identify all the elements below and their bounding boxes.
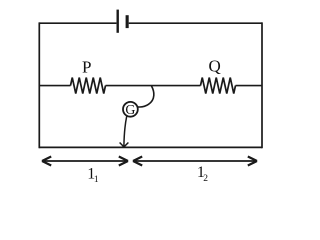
wire top-left segment [39,22,116,24]
svg-text:G: G [125,102,135,117]
dimension arrow l1 left head [42,157,51,166]
dimension arrow l2 shaft [134,160,256,162]
wire bottom (bridge wire) [39,146,262,148]
wire middle-center segment [106,85,201,87]
dimension arrow l2 right head [248,157,257,166]
wire middle-left segment [39,85,70,87]
svg-text:Q: Q [208,56,220,75]
battery cell long plate (+) [117,10,119,33]
dimension arrow l1 shaft [43,160,127,162]
dimension arrow l2 left head [133,157,142,166]
dimension arrow l1 right head [119,157,128,166]
svg-text:12: 12 [197,164,208,184]
wire middle-right segment [236,85,263,87]
battery cell short plate (-) [126,15,129,28]
resistor Q [201,78,236,94]
wire from middle wire to galvanometer [138,86,154,107]
wire left side [38,22,40,148]
jockey contact arrowhead [120,143,129,147]
svg-text:P: P [82,58,91,77]
wire top-right segment [129,22,262,24]
galvanometer U1 circle [123,102,138,117]
jockey wire from galvanometer [124,116,127,146]
wire right side [261,22,263,148]
svg-text:11: 11 [87,165,99,185]
resistor P [71,78,106,94]
